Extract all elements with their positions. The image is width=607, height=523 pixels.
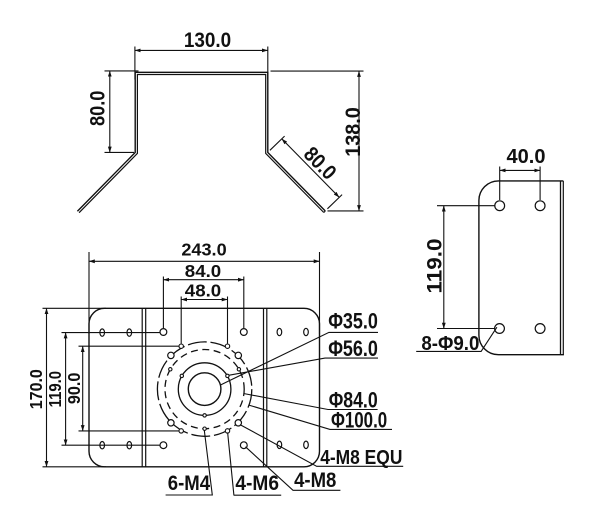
dimension 119.0 extension lines <box>62 333 160 446</box>
svg-text:8-Φ9.0: 8-Φ9.0 <box>421 333 479 355</box>
dimension 40.0 extension lines <box>500 167 540 201</box>
bottom view: M4 holes on D56 <box>180 374 229 417</box>
bottom view: circle D84 dashed <box>165 350 244 429</box>
dimension 48.0 extension lines <box>181 297 227 344</box>
leader 4-M8 EQU <box>240 425 403 467</box>
bottom view: right flange slot holes <box>277 328 282 335</box>
bottom view: circle D100 dashed <box>157 342 251 436</box>
svg-text:48.0: 48.0 <box>185 281 222 301</box>
bottom view: M4 holes on D84 <box>169 368 241 431</box>
dimension 80.0 left extension lines <box>105 71 139 152</box>
dimension 48.0 line <box>181 299 227 301</box>
dimension 80.0 diagonal line <box>282 139 340 198</box>
dimension 80.0 diagonal extension ticks <box>270 136 342 209</box>
svg-text:4-M6: 4-M6 <box>235 472 279 495</box>
dimension 243.0 line <box>89 260 320 262</box>
svg-text:170.0: 170.0 <box>26 369 46 409</box>
dimension 138.0 extension lines <box>271 71 364 211</box>
leader D56.0 <box>229 358 379 375</box>
dimension 119.0 line <box>65 333 67 446</box>
leader 6-M4 <box>166 430 213 495</box>
dimension 170.0 extension lines <box>43 308 107 467</box>
bottom view: 4-M8 EQU holes on D100 <box>168 352 242 426</box>
top view: right flare tip cap <box>324 211 326 213</box>
dimension 138.0 line <box>358 71 360 211</box>
svg-text:84.0: 84.0 <box>185 261 222 281</box>
dimension 170.0 line <box>46 308 48 467</box>
leader 8-D9.0 <box>416 327 497 351</box>
leader D84.0 <box>244 394 378 410</box>
leader D35.0 <box>220 332 378 385</box>
bottom view: left flange slot holes <box>100 329 105 336</box>
dimension 119.0 side line <box>443 206 445 329</box>
dimension 130.0 extension lines <box>135 47 268 80</box>
bottom view: 4-M6 holes <box>179 344 230 433</box>
top view: bracket profile outer contour <box>77 72 325 211</box>
svg-text:4-M8: 4-M8 <box>294 469 337 492</box>
dimension 40.0 line <box>500 169 540 171</box>
leader 4-M6 <box>228 433 282 495</box>
dimension 90.0 line <box>82 346 84 431</box>
bottom view: circle D35 center hole <box>188 373 221 406</box>
side view: plate outline <box>479 181 564 355</box>
svg-text:138.0: 138.0 <box>342 107 365 157</box>
svg-text:90.0: 90.0 <box>64 372 84 404</box>
bottom view: circle D56 <box>178 363 231 416</box>
leader 4-M8 <box>246 447 341 491</box>
dimension 119.0 side extension lines <box>437 206 495 329</box>
svg-text:80.0: 80.0 <box>299 143 341 185</box>
bottom view: right bend lines <box>264 308 267 467</box>
leader D100.0 <box>249 405 392 429</box>
svg-text:6-M4: 6-M4 <box>168 472 211 495</box>
svg-text:Φ35.0: Φ35.0 <box>328 309 378 334</box>
dimension 90.0 extension lines <box>79 346 179 431</box>
svg-text:119.0: 119.0 <box>45 371 65 408</box>
dimension 130.0 line <box>135 49 268 51</box>
bottom view: left bend lines <box>142 308 146 467</box>
svg-text:40.0: 40.0 <box>507 146 546 168</box>
svg-text:130.0: 130.0 <box>184 29 231 52</box>
side view: 8-D9.0 holes <box>495 201 505 211</box>
dimension 243.0 extension lines <box>89 252 320 334</box>
svg-text:Φ56.0: Φ56.0 <box>328 336 378 361</box>
svg-text:4-M8 EQU: 4-M8 EQU <box>320 447 402 469</box>
svg-text:80.0: 80.0 <box>87 91 110 127</box>
dimension 84.0 line <box>163 279 243 281</box>
svg-text:Φ100.0: Φ100.0 <box>331 407 387 432</box>
bottom view: 4-M8 corner holes <box>160 329 167 336</box>
side view: face right edge <box>560 181 562 355</box>
side view: sheet thickness edge <box>562 181 564 355</box>
dimension 84.0 extension lines <box>163 277 243 329</box>
bottom view: plate outline <box>89 308 320 467</box>
svg-text:119.0: 119.0 <box>424 239 447 294</box>
top view: bracket profile inner contour <box>79 75 324 213</box>
dimension 80.0 left line <box>109 71 111 152</box>
svg-text:243.0: 243.0 <box>181 240 227 260</box>
